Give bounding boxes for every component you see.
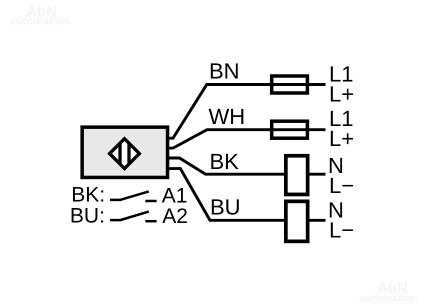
svg-text:L+: L+ xyxy=(329,81,354,106)
wire BU xyxy=(166,169,326,221)
fuse F2 xyxy=(272,121,308,138)
sensor symbol right bar xyxy=(127,136,130,171)
svg-text:BU:: BU: xyxy=(70,204,105,227)
svg-text:L+: L+ xyxy=(329,126,354,151)
sensor symbol left bar xyxy=(118,136,121,171)
watermark top-left xyxy=(10,3,70,27)
load K1 xyxy=(286,156,308,195)
switch contact S2 xyxy=(110,212,157,222)
svg-text:BK: BK xyxy=(210,149,240,174)
wire WH xyxy=(166,130,326,148)
svg-text:automation: automation xyxy=(359,292,419,304)
svg-text:BU: BU xyxy=(210,195,241,220)
svg-text:BN: BN xyxy=(209,58,240,83)
svg-text:L−: L− xyxy=(329,218,354,243)
svg-text:automation: automation xyxy=(10,16,70,28)
watermark bottom-right xyxy=(359,280,419,304)
fuse F1 xyxy=(272,76,308,93)
svg-text:BK:: BK: xyxy=(71,184,105,207)
svg-text:A2: A2 xyxy=(162,205,188,228)
wire BN xyxy=(166,85,326,139)
sensor box U1 xyxy=(82,127,167,177)
svg-text:WH: WH xyxy=(209,104,246,129)
svg-text:L−: L− xyxy=(329,173,354,198)
load K2 xyxy=(286,201,308,241)
sensor symbol diamond outline xyxy=(110,139,140,169)
wire BK xyxy=(166,158,326,174)
switch contact S1 xyxy=(110,191,157,201)
